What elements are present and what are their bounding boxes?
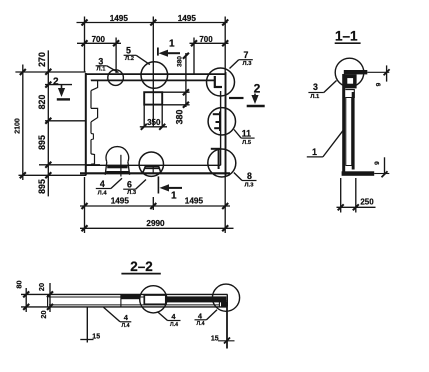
detail circle bottom center (6) <box>139 152 163 176</box>
svg-text:6: 6 <box>127 179 132 189</box>
svg-text:700: 700 <box>92 35 106 44</box>
left dim outer line <box>25 288 27 312</box>
svg-text:2: 2 <box>53 76 59 87</box>
dome detail bottom left: arc <box>106 147 129 162</box>
svg-text:1: 1 <box>171 191 177 202</box>
trapezoid centre line <box>152 167 154 174</box>
tick <box>183 53 189 108</box>
panel top beam bottom edge <box>91 79 215 81</box>
svg-text:20: 20 <box>37 283 46 291</box>
svg-text:820: 820 <box>37 95 47 110</box>
svg-text:Л.5: Л.5 <box>242 140 252 146</box>
wire 700 ext left <box>115 38 117 74</box>
wire 250 ext left <box>340 178 342 213</box>
wire bottom dim line 2990 <box>80 227 234 229</box>
svg-text:1495: 1495 <box>178 14 197 23</box>
beam top surface <box>21 293 228 295</box>
shear key bump small <box>91 133 93 139</box>
hook plate detail <box>344 74 357 88</box>
section 2 cutting line stub right <box>229 97 244 99</box>
svg-text:Л.3: Л.3 <box>127 190 137 196</box>
plate in circle 11 <box>213 112 221 132</box>
svg-text:Л.2: Л.2 <box>125 56 134 62</box>
wire top dimension line <box>77 22 228 24</box>
left dim inner line <box>49 283 51 312</box>
detail circle corner top-right (7) <box>207 68 235 96</box>
wire left outer dim line (2100) <box>22 65 24 181</box>
svg-text:700: 700 <box>199 35 213 44</box>
beam bottom inner line <box>49 304 220 306</box>
wire top edge extension to left <box>15 71 85 73</box>
tick <box>338 204 359 210</box>
svg-text:Л.1: Л.1 <box>97 67 107 73</box>
end step detail <box>219 301 227 307</box>
svg-text:1–1: 1–1 <box>335 28 358 43</box>
wire top dim extension right <box>224 17 226 75</box>
tick <box>82 20 229 26</box>
wire left inner dim line <box>47 50 49 196</box>
svg-text:270: 270 <box>37 52 47 67</box>
channel inner cavity <box>346 98 352 166</box>
section 2 marker left arrow <box>61 85 63 93</box>
plate side extension left <box>143 105 145 128</box>
svg-text:8: 8 <box>247 171 252 181</box>
shear key bump 1 <box>91 80 98 90</box>
svg-text:20: 20 <box>39 310 48 318</box>
wire plate dim connector top <box>162 91 189 93</box>
tick <box>141 124 165 130</box>
wire plate dim connector bottom <box>162 104 189 106</box>
shear key bump 3 <box>91 154 95 164</box>
svg-text:250: 250 <box>360 197 374 206</box>
trapezoid top thick line <box>145 167 159 169</box>
channel right wall <box>352 92 355 170</box>
wire bottom edge extension to left <box>19 174 87 176</box>
bottom flange <box>342 171 375 176</box>
panel top beam top edge <box>86 73 226 75</box>
svg-text:Л.4: Л.4 <box>197 321 205 327</box>
panel bottom rail top edge <box>86 164 221 166</box>
plate in corner circle 7 <box>214 76 222 88</box>
svg-text:Л.3: Л.3 <box>245 183 255 189</box>
wire ext y120.8 <box>45 120 86 122</box>
beam left end cap <box>47 294 49 307</box>
channel top notch <box>345 90 354 98</box>
plate side extension right <box>161 105 163 128</box>
beam right end cap <box>226 294 228 307</box>
svg-text:4: 4 <box>100 179 105 189</box>
beam middle embedded bar <box>166 296 227 302</box>
tick <box>47 291 53 310</box>
wire ext y84.6 <box>45 84 72 86</box>
panel left member outer edge <box>85 73 87 176</box>
svg-text:895: 895 <box>37 135 47 150</box>
right anchor cross line <box>218 340 235 342</box>
tick <box>23 291 29 310</box>
wire top dim extension mid <box>152 17 154 93</box>
section 2 marker right arrow <box>254 94 256 100</box>
detail circle small top (plate 3) <box>108 70 124 86</box>
wire ext left bottom <box>84 177 86 233</box>
svg-text:Л.3: Л.3 <box>243 61 253 67</box>
wire ext y164.8 <box>39 164 100 166</box>
svg-text:3: 3 <box>313 82 318 92</box>
svg-text:1: 1 <box>169 39 175 50</box>
svg-text:15: 15 <box>92 334 100 341</box>
wire 250 dim line <box>337 206 376 208</box>
right anchor leg <box>226 307 228 349</box>
embedded plate 350x380 under big circle <box>144 92 162 104</box>
tick <box>20 69 26 178</box>
panel right member inner edge <box>220 91 222 165</box>
weld dim top: line <box>386 65 388 81</box>
dome centre line <box>120 155 122 177</box>
wire bottom dim line 1495/1495 <box>80 205 230 207</box>
wire ext right bottom <box>224 177 226 233</box>
dome band1 <box>107 165 127 168</box>
svg-text:3: 3 <box>98 56 103 66</box>
svg-text:350: 350 <box>147 118 161 127</box>
section 1 marker bottom: stub <box>157 176 159 193</box>
svg-text:380: 380 <box>174 110 184 125</box>
panel left member inner edge <box>90 80 92 166</box>
wire ext mid bottom <box>152 197 154 210</box>
shear key bump 2 <box>91 108 98 122</box>
svg-text:9: 9 <box>376 82 383 86</box>
tick <box>82 203 229 209</box>
tick <box>82 40 229 46</box>
svg-text:1495: 1495 <box>111 196 130 205</box>
wire 700 ext right <box>193 38 195 75</box>
wire top dim extension left <box>84 17 86 73</box>
detail circle right middle (11) <box>208 108 235 135</box>
plate centre line <box>152 92 154 127</box>
wire 700 dim line left <box>77 42 121 44</box>
section 1 marker top arrow <box>165 52 180 54</box>
panel bottom edge <box>80 172 230 174</box>
panel right member outer edge <box>225 72 227 176</box>
svg-text:Л.4: Л.4 <box>98 190 108 196</box>
tick <box>384 69 390 75</box>
title underline <box>121 273 160 275</box>
beam bottom surface <box>21 306 228 308</box>
channel left wall <box>342 74 345 176</box>
section 2 marker right bar <box>247 105 265 107</box>
title underline <box>335 42 361 44</box>
plate in circle 8 <box>211 148 220 169</box>
section 1 marker bottom arrow <box>166 187 182 189</box>
weld dim bottom: line <box>384 157 386 175</box>
embedded box in middle circle <box>144 295 166 304</box>
svg-text:15: 15 <box>211 335 219 342</box>
beam top plate dark band <box>121 294 140 299</box>
section 2 marker left bar <box>57 98 70 100</box>
svg-text:5: 5 <box>126 45 131 55</box>
dome slant left <box>105 162 107 175</box>
svg-text:Л.1: Л.1 <box>310 94 320 100</box>
wire plate vertical dim line <box>185 53 187 107</box>
svg-text:2–2: 2–2 <box>130 259 153 274</box>
svg-text:Л.4: Л.4 <box>170 322 178 328</box>
beam web boundary <box>120 294 122 307</box>
wire 700 dim line right <box>190 42 229 44</box>
right anchor tick <box>224 338 230 344</box>
tick <box>82 225 229 231</box>
detail circle middle 2-2 <box>140 286 167 313</box>
svg-text:Л.4: Л.4 <box>122 323 130 329</box>
detail circle big top (plate 5) <box>141 62 168 89</box>
dome slant right <box>128 162 130 175</box>
svg-text:9: 9 <box>374 161 381 165</box>
detail circle 3/L1 section <box>335 58 364 87</box>
dome band2 <box>106 171 128 173</box>
svg-text:11: 11 <box>242 128 251 138</box>
wire 350 dim line <box>140 126 167 128</box>
trapezoid plate in bottom circle <box>143 167 162 174</box>
left anchor leg <box>86 307 88 343</box>
svg-text:2990: 2990 <box>146 219 165 228</box>
detail circle right 2-2 <box>212 284 239 311</box>
left anchor foot <box>80 339 93 341</box>
svg-text:895: 895 <box>37 179 47 194</box>
svg-text:80: 80 <box>15 280 24 288</box>
svg-text:380: 380 <box>177 56 184 67</box>
tick <box>382 171 388 177</box>
svg-text:1495: 1495 <box>185 196 204 205</box>
svg-text:7: 7 <box>244 50 249 60</box>
detail circle right bottom (8) <box>208 149 236 177</box>
section 1 marker top: stub <box>157 48 159 56</box>
wire 250 ext right <box>355 178 357 213</box>
svg-text:2100: 2100 <box>15 118 22 134</box>
svg-text:1: 1 <box>312 147 317 157</box>
top flange plate band <box>344 70 368 74</box>
tick <box>45 69 51 179</box>
svg-text:1495: 1495 <box>110 14 129 23</box>
beam top inner line <box>49 296 145 298</box>
